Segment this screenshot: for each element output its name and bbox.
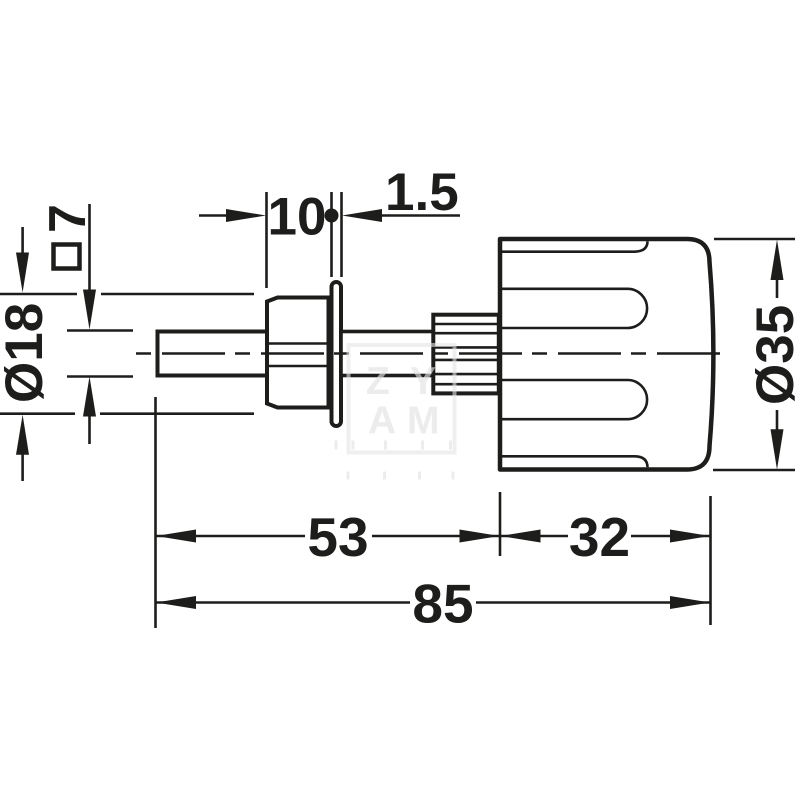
knob body xyxy=(500,239,713,470)
dim 35 bottom extension line xyxy=(713,469,795,472)
dim 53 line xyxy=(156,535,501,538)
spindle top edge extension xyxy=(67,329,133,332)
knob groove 1 (top) xyxy=(502,241,648,251)
knob groove 4 (bottom) xyxy=(502,456,648,467)
dim 53 arrows xyxy=(156,530,500,543)
dim 18 up arrow xyxy=(16,415,29,481)
watermark frame xyxy=(349,345,455,453)
knob groove 3 xyxy=(502,380,647,419)
dim 32 arrows xyxy=(501,530,711,543)
watermark tick row 2 xyxy=(347,472,455,480)
watermark letters xyxy=(366,360,440,443)
svg-text:53: 53 xyxy=(307,506,368,568)
svg-text:1.5: 1.5 xyxy=(385,163,459,222)
hex facet line lower xyxy=(267,365,329,368)
svg-text:Y: Y xyxy=(410,360,436,403)
svg-text:Z: Z xyxy=(366,360,390,403)
watermark tick row 1 xyxy=(335,441,453,450)
square symbol of dim 7 xyxy=(54,245,80,269)
knurled section xyxy=(433,315,499,394)
spindle (square 7mm, side view) xyxy=(158,332,268,376)
dim 10 leader left xyxy=(199,214,230,217)
dim origin dot xyxy=(325,209,339,223)
dim 7 line with down arrow xyxy=(83,204,96,330)
svg-text:Ø18: Ø18 xyxy=(0,303,54,403)
flange washer xyxy=(332,282,342,426)
extension line C (knob right) xyxy=(709,496,712,625)
knurl lines xyxy=(435,324,497,384)
spindle bottom edge extension xyxy=(67,375,133,378)
dim 35 down arrow xyxy=(771,410,784,470)
dim 10 extension line 1 xyxy=(265,192,268,288)
svg-text:85: 85 xyxy=(412,573,473,635)
dim 10 extension line 2 xyxy=(330,192,333,277)
extension line A (spindle left) xyxy=(154,397,157,628)
dim 18 top extension line xyxy=(0,293,254,296)
dim 7 up arrow below xyxy=(83,377,96,445)
dim 35 up arrow xyxy=(771,240,784,298)
extension line B (knob left) xyxy=(499,492,502,556)
svg-text:32: 32 xyxy=(569,506,630,568)
dim 85 line xyxy=(156,601,711,604)
dim 35 top extension line xyxy=(714,238,795,241)
svg-text:M: M xyxy=(407,400,440,443)
hex bushing body xyxy=(267,298,329,408)
hex facet line upper xyxy=(267,342,329,345)
knob groove 2 xyxy=(502,289,647,328)
svg-text:Ø35: Ø35 xyxy=(746,305,800,405)
centerline xyxy=(136,352,724,355)
dim 1.5 extension line 3 xyxy=(340,192,343,277)
dim 1.5 leader xyxy=(380,214,460,217)
shaft xyxy=(341,332,433,376)
svg-text:10: 10 xyxy=(268,188,327,247)
dim 10 arrow right-pointing xyxy=(226,209,266,222)
dim 18 bottom extension line xyxy=(0,412,254,415)
dim 32 line xyxy=(500,535,711,538)
dim 18 down arrow xyxy=(16,227,29,293)
dim 1.5 arrow left-pointing xyxy=(342,209,382,222)
svg-text:A: A xyxy=(368,400,396,443)
dim 85 arrows xyxy=(156,596,710,609)
